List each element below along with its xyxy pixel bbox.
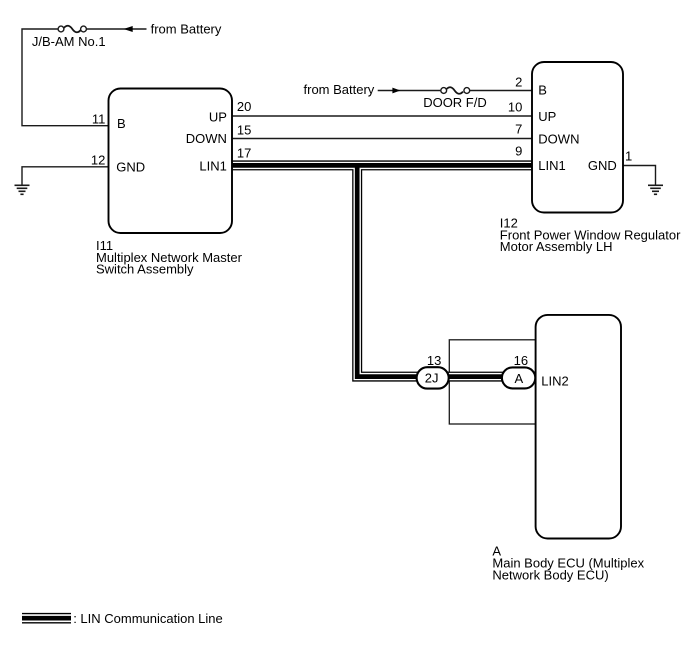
svg-text:: LIN Communication Line: : LIN Communication Line <box>73 611 223 626</box>
svg-text:1: 1 <box>625 148 632 163</box>
svg-text:LIN2: LIN2 <box>541 373 568 388</box>
svg-text:B: B <box>117 116 126 131</box>
svg-text:LIN1: LIN1 <box>199 159 226 174</box>
svg-text:15: 15 <box>237 122 251 137</box>
svg-text:Motor Assembly LH: Motor Assembly LH <box>500 239 613 254</box>
svg-text:GND: GND <box>116 159 145 174</box>
svg-text:DOWN: DOWN <box>538 131 579 146</box>
svg-text:from Battery: from Battery <box>304 82 375 97</box>
svg-text:LIN1: LIN1 <box>538 158 565 173</box>
svg-text:13: 13 <box>427 353 441 368</box>
svg-text:Switch Assembly: Switch Assembly <box>96 262 194 277</box>
svg-text:10: 10 <box>508 99 522 114</box>
svg-text:7: 7 <box>515 122 522 137</box>
svg-text:Network Body ECU): Network Body ECU) <box>492 567 608 582</box>
svg-text:17: 17 <box>237 145 251 160</box>
svg-text:DOWN: DOWN <box>186 131 227 146</box>
svg-text:J/B-AM No.1: J/B-AM No.1 <box>32 34 106 49</box>
svg-text:UP: UP <box>209 110 227 125</box>
svg-text:9: 9 <box>515 143 522 158</box>
svg-text:DOOR F/D: DOOR F/D <box>423 95 487 110</box>
svg-text:16: 16 <box>514 353 528 368</box>
svg-text:from Battery: from Battery <box>151 21 222 36</box>
svg-text:UP: UP <box>538 109 556 124</box>
svg-text:2: 2 <box>515 75 522 90</box>
svg-text:B: B <box>538 82 547 97</box>
svg-text:A: A <box>514 371 523 386</box>
svg-text:11: 11 <box>92 112 106 127</box>
svg-text:12: 12 <box>91 153 105 168</box>
svg-text:20: 20 <box>237 99 251 114</box>
svg-text:2J: 2J <box>425 371 439 386</box>
svg-text:GND: GND <box>588 158 617 173</box>
